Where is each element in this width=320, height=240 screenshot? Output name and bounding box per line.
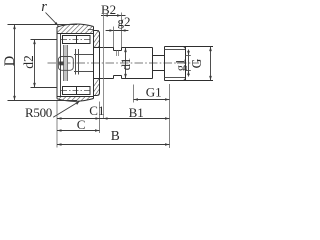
svg-text:d2: d2 bbox=[21, 55, 36, 69]
svg-text:g2: g2 bbox=[118, 14, 131, 29]
svg-text:R500: R500 bbox=[25, 105, 52, 120]
svg-text:G1: G1 bbox=[146, 85, 162, 100]
svg-text:r: r bbox=[41, 0, 47, 15]
svg-text:d1: d1 bbox=[119, 58, 133, 71]
svg-text:C1: C1 bbox=[89, 103, 104, 118]
svg-text:G: G bbox=[189, 58, 204, 68]
svg-text:B: B bbox=[111, 128, 120, 143]
svg-text:D: D bbox=[2, 56, 18, 66]
svg-text:C: C bbox=[77, 117, 86, 132]
svg-text:g1: g1 bbox=[174, 59, 188, 72]
svg-text:B1: B1 bbox=[129, 105, 144, 120]
